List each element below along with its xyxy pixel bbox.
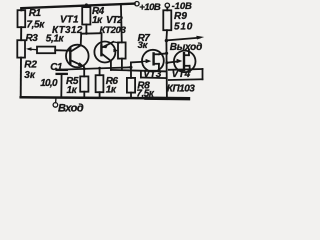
node output junction xyxy=(165,39,168,42)
node R8 top xyxy=(129,66,132,69)
svg-text:1к: 1к xyxy=(67,85,78,96)
wire VT3 drain to output vertical xyxy=(159,52,167,55)
svg-text:1к: 1к xyxy=(106,84,117,95)
resistor R1 xyxy=(18,10,26,27)
svg-text:КП103: КП103 xyxy=(167,83,195,94)
svg-text:КТ203: КТ203 xyxy=(100,25,127,36)
wire R1 top lead xyxy=(20,8,22,10)
wire R1-R2 link xyxy=(20,27,22,40)
svg-text:VT1: VT1 xyxy=(60,15,79,26)
svg-text:7,5к: 7,5к xyxy=(27,20,46,31)
wire output with arrow xyxy=(166,38,199,41)
wire VT4 label box xyxy=(169,68,203,71)
wire R5 bottom lead xyxy=(83,92,85,98)
node VT3 drain junction xyxy=(165,52,168,55)
svg-text:R3: R3 xyxy=(26,33,39,44)
svg-text:510: 510 xyxy=(174,22,193,33)
wire R8 bottom lead xyxy=(130,93,132,99)
svg-text:3к: 3к xyxy=(138,40,149,51)
resistor R6 xyxy=(96,75,104,92)
wire VT3 source down xyxy=(158,64,160,71)
wire top rail xyxy=(21,4,134,9)
wire B VT2 collector to VT3 xyxy=(111,70,167,72)
R7 wiper arrow from VT2 xyxy=(114,50,117,52)
terminal input xyxy=(55,98,57,103)
svg-text:КТ312: КТ312 xyxy=(52,25,83,36)
svg-text:VT4: VT4 xyxy=(172,69,191,80)
wire VT2 collector drop xyxy=(110,61,112,70)
wire R4 top lead xyxy=(85,5,87,7)
svg-text:3к: 3к xyxy=(24,70,36,81)
svg-text:VT2: VT2 xyxy=(106,15,123,26)
svg-text:R1: R1 xyxy=(29,8,42,19)
wire R8 top lead up to gate link xyxy=(130,62,132,78)
transistor VT4 KP103 xyxy=(174,51,196,73)
svg-text:7,5к: 7,5к xyxy=(136,88,154,99)
capacitor C1 plates xyxy=(57,69,67,71)
svg-text:VT3: VT3 xyxy=(143,69,162,80)
wire R6 bottom lead xyxy=(99,92,101,98)
wire VT2 emitter to R7 top node xyxy=(113,42,119,43)
node R6 top xyxy=(98,67,101,70)
resistor R9 xyxy=(163,10,171,30)
wire R7 bottom lead xyxy=(121,59,123,71)
wire R3 to VT1 base xyxy=(55,49,69,51)
resistor R3 with wiper arrow into R2 xyxy=(29,48,37,51)
transistor VT1 KT312 xyxy=(66,45,89,68)
terminal -10V xyxy=(165,3,169,7)
svg-text:C1: C1 xyxy=(50,62,63,73)
resistor R4 xyxy=(82,7,90,24)
wire A emitter node xyxy=(62,67,131,69)
wire R6 top lead xyxy=(99,68,101,75)
node R4 top junction xyxy=(85,3,88,6)
svg-text:10,0: 10,0 xyxy=(40,78,58,89)
resistor R2 (trimmer) xyxy=(17,40,25,57)
wire VT1 collector up xyxy=(80,34,83,46)
wire -10V to R9 xyxy=(166,8,168,11)
wire collector link to VT2 base xyxy=(81,32,101,35)
node R5 top xyxy=(83,67,86,70)
svg-text:+10В: +10В xyxy=(139,2,161,13)
wire gate link to VT3 xyxy=(131,61,142,64)
wire central vertical xyxy=(165,41,168,98)
transistor VT2 KT203 xyxy=(94,42,115,63)
wire VT2 base drop xyxy=(100,33,102,46)
transistor VT3 KP103 xyxy=(142,50,164,72)
node collector-R4 junction xyxy=(85,32,88,35)
wire bottom rail xyxy=(21,97,146,98)
wire R4 bottom lead xyxy=(85,25,87,34)
svg-text:R9: R9 xyxy=(174,11,187,22)
svg-text:Вход: Вход xyxy=(58,102,84,114)
resistor R7 (trimmer) xyxy=(118,42,126,58)
wire VT4 gate tap xyxy=(167,61,179,63)
resistor R5 xyxy=(80,76,88,91)
wire R5 top lead xyxy=(83,69,85,77)
wire R2 bottom to rail xyxy=(20,58,22,98)
wire +rail down to R7 xyxy=(120,4,123,43)
svg-text:Выход: Выход xyxy=(170,42,202,53)
wire C1 bottom lead xyxy=(60,74,62,98)
wire VT3 label box xyxy=(140,71,142,78)
wire R9 bottom lead xyxy=(165,30,168,40)
terminal +10V xyxy=(135,2,139,6)
wire VT1 emitter down xyxy=(83,66,85,69)
resistor R8 xyxy=(127,78,135,93)
